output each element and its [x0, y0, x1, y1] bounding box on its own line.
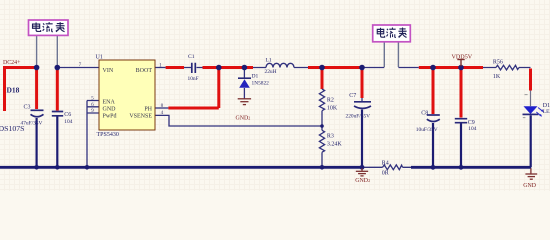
svg-text:47uF/35V: 47uF/35V: [21, 121, 43, 127]
svg-text:0R: 0R: [382, 171, 389, 177]
svg-text:1: 1: [159, 63, 162, 69]
svg-text:GND2: GND2: [236, 116, 251, 122]
svg-text:C9: C9: [468, 120, 475, 126]
svg-text:TPS5430: TPS5430: [97, 132, 119, 138]
svg-text:D1: D1: [252, 74, 259, 80]
svg-text:5: 5: [91, 96, 94, 102]
svg-text:VDD5V: VDD5V: [452, 54, 473, 60]
svg-text:10K: 10K: [327, 105, 338, 111]
svg-text:VIN: VIN: [103, 68, 114, 74]
svg-text:GND2: GND2: [355, 178, 370, 184]
svg-text:GND: GND: [103, 106, 117, 112]
svg-text:8: 8: [161, 103, 164, 109]
svg-text:DC24+: DC24+: [3, 60, 21, 66]
svg-text:C3: C3: [24, 105, 31, 111]
svg-text:104: 104: [468, 126, 476, 132]
svg-text:10nF: 10nF: [188, 76, 199, 82]
svg-text:C1: C1: [188, 54, 195, 60]
svg-text:1N5822: 1N5822: [252, 81, 270, 87]
svg-text:104: 104: [64, 119, 72, 125]
svg-text:R3: R3: [327, 134, 334, 140]
svg-text:GND: GND: [523, 183, 537, 189]
svg-text:BOOT: BOOT: [136, 68, 153, 74]
svg-text:PwPd: PwPd: [103, 113, 117, 119]
svg-text:R2: R2: [327, 97, 334, 103]
svg-text:C8: C8: [421, 111, 428, 117]
svg-text:7: 7: [79, 62, 82, 68]
svg-text:9: 9: [91, 108, 94, 114]
svg-text:3.24K: 3.24K: [327, 142, 343, 148]
svg-text:PH: PH: [144, 106, 152, 112]
svg-text:22uH: 22uH: [265, 69, 277, 75]
svg-text:LED: LED: [543, 109, 550, 115]
svg-text:VSENSE: VSENSE: [129, 113, 152, 119]
svg-text:220uF/35V: 220uF/35V: [346, 114, 371, 120]
svg-text:U1: U1: [96, 55, 103, 61]
svg-text:6: 6: [91, 102, 94, 108]
svg-text:L1: L1: [266, 58, 272, 64]
svg-text:R4: R4: [382, 160, 389, 166]
svg-text:ENA: ENA: [103, 99, 116, 105]
svg-text:D18: D18: [7, 86, 20, 95]
svg-text:R56: R56: [493, 59, 503, 65]
svg-text:10uF/35V: 10uF/35V: [416, 127, 438, 133]
svg-text:C7: C7: [349, 93, 356, 99]
svg-text:4: 4: [161, 110, 164, 116]
svg-text:C6: C6: [64, 112, 71, 118]
svg-text:1K: 1K: [493, 74, 501, 80]
